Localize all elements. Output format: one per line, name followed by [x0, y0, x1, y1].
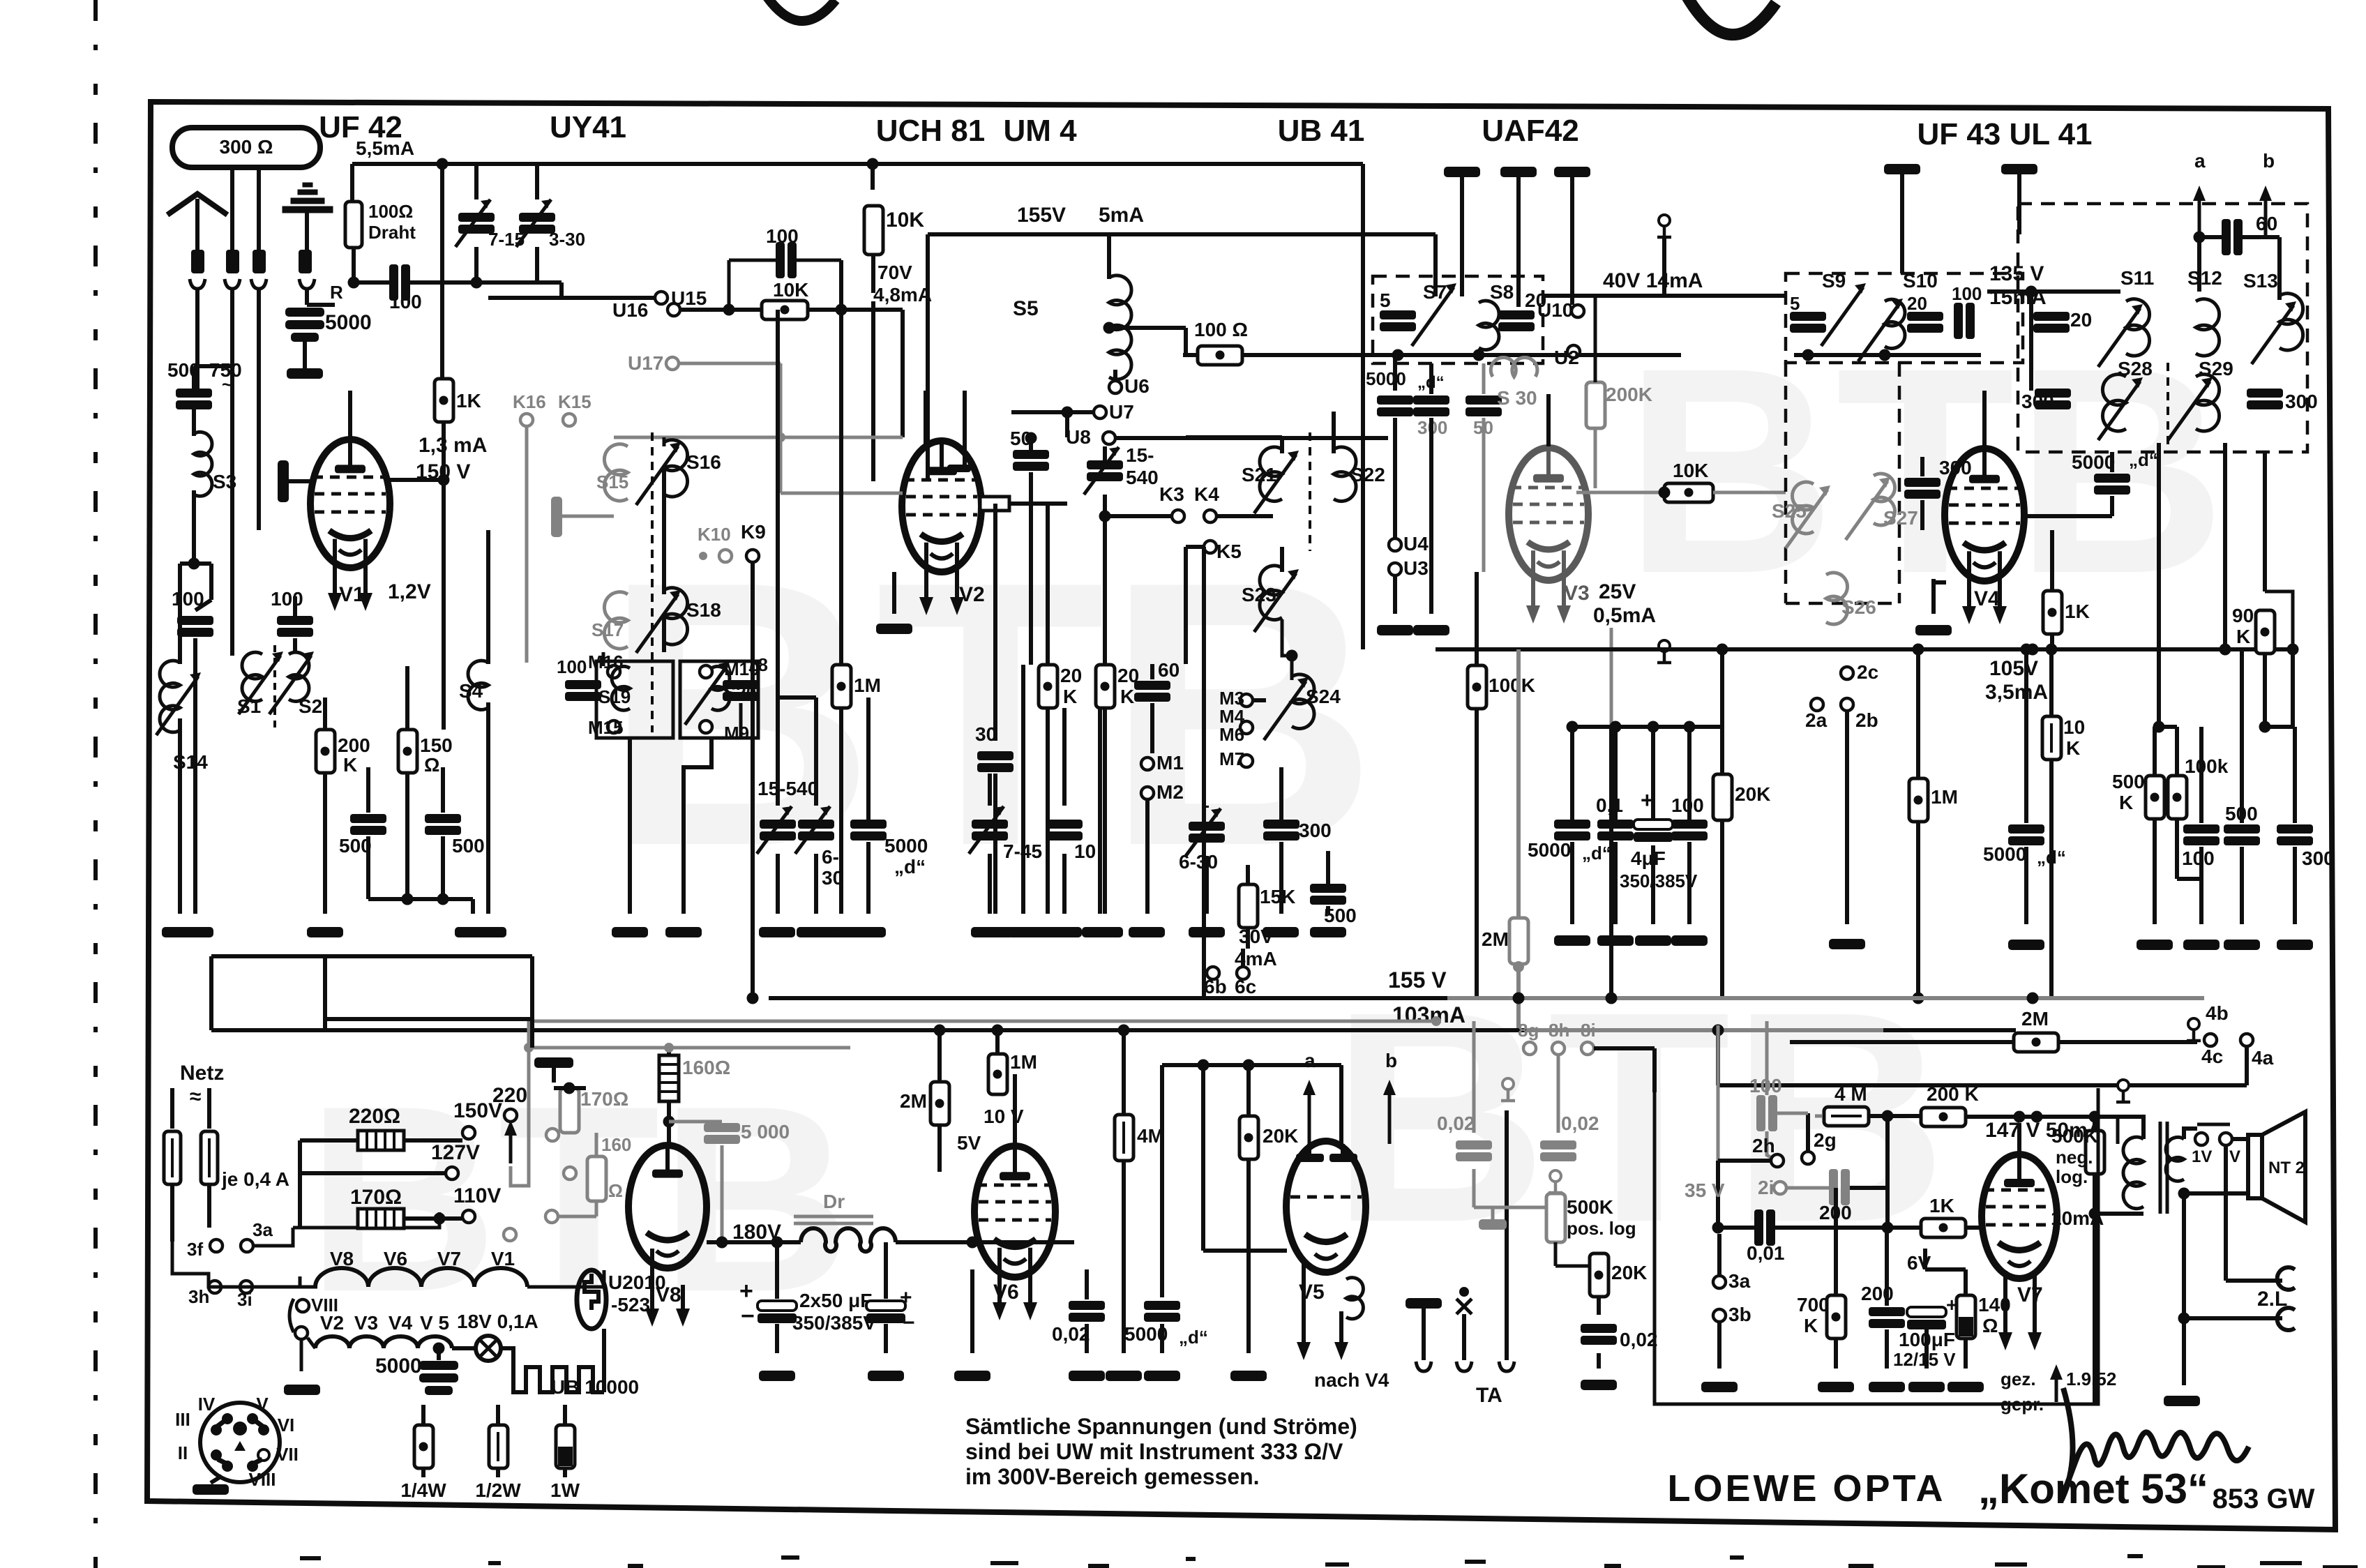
svg-text:UCH 81: UCH 81	[876, 114, 986, 148]
svg-text:V: V	[256, 1394, 269, 1415]
bus 103mA	[211, 1028, 1526, 1032]
electrolytic 4uF	[1634, 820, 1673, 829]
svg-text:8h: 8h	[1549, 1020, 1569, 1041]
fuse 2	[207, 1088, 211, 1129]
wire M1 column	[1145, 799, 1150, 914]
dashed core S21/S22	[1309, 432, 1311, 551]
svg-text:200K: 200K	[1606, 384, 1652, 405]
V5 pins	[1307, 1144, 1311, 1158]
svg-text:20K: 20K	[1263, 1125, 1298, 1147]
svg-text:-523: -523	[611, 1294, 650, 1316]
wire secondary bottom	[2178, 1188, 2190, 1200]
V7 anode to transformer	[2017, 1123, 2021, 1156]
svg-text:U10: U10	[1537, 299, 1573, 321]
coil S30 gray	[1491, 358, 1537, 377]
capacitor 20 if2	[2033, 312, 2070, 333]
wire S2 to 200K	[323, 698, 327, 730]
svg-text:S5: S5	[1013, 297, 1039, 320]
gray cap 200 af	[1829, 1169, 1850, 1205]
trimmer 3-30	[519, 213, 555, 234]
switch box S7 S8 dashed	[1373, 276, 1543, 363]
capacitor 100 M block	[565, 680, 601, 701]
dashed core S15/S16	[651, 432, 654, 732]
svg-text:V8: V8	[330, 1248, 354, 1269]
resistor 1K out	[2050, 530, 2054, 591]
svg-text:VII: VII	[276, 1444, 299, 1465]
svg-text:1K: 1K	[1929, 1195, 1954, 1216]
svg-text:S 30: S 30	[1497, 387, 1537, 409]
svg-text:K5: K5	[1216, 541, 1242, 562]
trimmer 15-540 osc	[1087, 460, 1123, 481]
trimmer 15-540 padder	[760, 820, 796, 840]
svg-text:S21: S21	[1242, 464, 1276, 485]
svg-text:S2: S2	[299, 695, 322, 717]
wire k5 column	[1202, 547, 1206, 998]
svg-text:500: 500	[2112, 771, 2145, 792]
terminal 3b	[1713, 1309, 1726, 1322]
terminal 6c	[1237, 967, 1249, 979]
dashed core S28/S29	[2167, 363, 2169, 453]
gray cap 0,02 b	[1540, 1140, 1576, 1161]
terminal 8i	[1581, 1042, 1594, 1055]
wire heater to ground	[300, 1339, 303, 1371]
coil S3	[192, 409, 196, 436]
resistor 100 ohm ave	[1198, 346, 1242, 365]
terminal antenna a3	[253, 250, 266, 273]
svg-text:S28: S28	[2118, 358, 2153, 379]
earth symbol	[282, 183, 333, 213]
svg-text:20: 20	[1060, 665, 1082, 686]
svg-text:5000: 5000	[2072, 451, 2115, 473]
scan artifact binder arc right	[1687, 0, 1776, 35]
svg-text:2c: 2c	[1857, 661, 1878, 683]
svg-text:4b: 4b	[2206, 1002, 2229, 1024]
svg-text:V3: V3	[354, 1312, 378, 1334]
svg-text:S12: S12	[2187, 267, 2222, 289]
tap point lower bus	[2118, 1080, 2129, 1091]
gray wire K16 down	[525, 426, 529, 610]
svg-text:6c: 6c	[1235, 976, 1256, 997]
svg-text:S19: S19	[598, 686, 631, 707]
wire antenna to S3	[195, 289, 199, 391]
coil S16 black variable	[664, 440, 688, 497]
tap point v3	[1659, 640, 1670, 651]
svg-text:15K: 15K	[1260, 886, 1295, 907]
svg-text:30V: 30V	[1239, 926, 1274, 947]
svg-text:150: 150	[420, 734, 453, 756]
tube V7 UL41	[1982, 1154, 2057, 1279]
svg-text:U2010: U2010	[608, 1272, 666, 1293]
choke Dr	[795, 1240, 801, 1244]
svg-text:1M: 1M	[1931, 786, 1958, 808]
scan artifact left edge	[93, 0, 98, 1568]
svg-text:„d“: „d“	[2037, 847, 2066, 868]
small rectifier U2010-523	[577, 1270, 606, 1329]
wire v6 cathode	[970, 1269, 974, 1353]
terminal K15 gray	[563, 414, 575, 426]
capacitor 100 mid	[1671, 820, 1708, 840]
gray tap a	[1502, 1078, 1514, 1090]
wire 135V	[1987, 289, 2120, 294]
trimmer 6-30	[798, 820, 834, 840]
svg-text:2M: 2M	[1482, 928, 1509, 950]
lamp 18V 0,1A	[452, 1346, 476, 1350]
grid cap V1	[278, 460, 289, 502]
svg-text:III: III	[175, 1409, 190, 1430]
capacitor 5000d uaf42	[1393, 355, 1397, 391]
svg-text:0,01: 0,01	[1747, 1242, 1785, 1264]
gray sel wires	[527, 1021, 531, 1048]
legend resistor 1W	[563, 1405, 567, 1425]
svg-text:≈: ≈	[190, 1085, 201, 1108]
terminal M2	[1141, 787, 1154, 799]
svg-text:S24: S24	[1306, 686, 1341, 707]
terminal TA stem	[1505, 1110, 1509, 1360]
wire box bottom	[1388, 353, 1569, 357]
svg-text:S10: S10	[1903, 270, 1938, 292]
pot 500K neg log	[2086, 1131, 2104, 1174]
tube V6 UB41 af	[974, 1146, 1055, 1277]
capacitor 300 if2 left	[2035, 389, 2071, 409]
svg-text:10K: 10K	[773, 279, 808, 301]
V2 ground	[892, 572, 896, 614]
svg-text:100: 100	[172, 588, 204, 610]
svg-text:V7: V7	[2017, 1283, 2043, 1306]
resistor 100K	[1475, 572, 1479, 665]
capacitor 300 s27	[1904, 478, 1941, 499]
chassis bar uaf42 2	[1500, 167, 1537, 177]
svg-text:10K: 10K	[1673, 460, 1708, 481]
resistor 170 ohm gray	[560, 1088, 579, 1133]
gray cap 100 af	[1756, 1095, 1777, 1131]
svg-text:V3: V3	[1564, 582, 1590, 605]
svg-text:2a: 2a	[1805, 709, 1828, 731]
speaker terminal V	[2220, 1133, 2232, 1145]
svg-text:160Ω: 160Ω	[682, 1057, 730, 1078]
svg-text:300: 300	[1299, 820, 1332, 841]
speaker terminal 1V	[2195, 1133, 2208, 1145]
terminal 2h	[1771, 1154, 1784, 1167]
svg-text:15-540: 15-540	[758, 778, 818, 799]
svg-text:5000: 5000	[1983, 843, 2026, 865]
terminal 3h	[209, 1281, 221, 1293]
capacitor 5000d v6	[1144, 1301, 1180, 1322]
svg-text:K: K	[2066, 737, 2080, 759]
svg-text:S22: S22	[1350, 464, 1385, 485]
barretter UB10000	[501, 1348, 513, 1367]
svg-text:2h: 2h	[1752, 1135, 1775, 1156]
capacitor 60 top	[2222, 219, 2243, 255]
capacitor 300 det	[1263, 820, 1299, 840]
capacitor 50	[1013, 450, 1049, 471]
svg-text:200 K: 200 K	[1927, 1083, 1979, 1105]
capacitor 5 in box	[1380, 310, 1416, 331]
terminal K5	[1204, 541, 1216, 553]
terminal K9	[746, 550, 759, 562]
svg-text:15mA: 15mA	[1989, 286, 2047, 309]
terminal U15	[488, 296, 661, 300]
terminal U2	[1567, 345, 1580, 358]
svg-text:U4: U4	[1403, 533, 1429, 555]
coil S25 gray	[1792, 482, 1814, 534]
svg-text:K: K	[2119, 792, 2133, 813]
resistor 15K	[1239, 884, 1258, 928]
svg-text:K10: K10	[698, 524, 731, 545]
svg-text:1,3 mA: 1,3 mA	[419, 434, 487, 457]
arrow a mid	[1308, 1084, 1311, 1144]
svg-text:M1: M1	[1156, 752, 1184, 774]
chassis bars uf43	[1884, 164, 1920, 174]
svg-text:LOEWE OPTA: LOEWE OPTA	[1668, 1468, 1946, 1509]
wire ps loop	[211, 164, 212, 1030]
svg-text:300 Ω: 300 Ω	[220, 136, 273, 158]
svg-text:U6: U6	[1124, 375, 1150, 397]
svg-text:1/2W: 1/2W	[475, 1479, 521, 1501]
capacitor 0,02 af	[1581, 1324, 1617, 1345]
svg-text:220Ω: 220Ω	[349, 1105, 400, 1128]
resistor 150 ohm	[398, 730, 417, 773]
svg-text:a: a	[2194, 150, 2206, 172]
svg-text:100Ω: 100Ω	[368, 201, 413, 222]
svg-text:S27: S27	[1883, 507, 1918, 529]
svg-text:II: II	[178, 1442, 188, 1463]
capacitor 18	[723, 680, 759, 701]
terminal U7	[1094, 406, 1106, 419]
capacitor 100 antenna	[180, 561, 211, 566]
capacitor 100 agc	[776, 242, 797, 278]
trimmer 7-15	[458, 213, 495, 234]
svg-text:20: 20	[2070, 309, 2092, 331]
svg-text:a: a	[1304, 1050, 1316, 1071]
wire to hook lower	[2178, 1313, 2190, 1325]
capacitor 5000 d	[850, 820, 887, 840]
svg-text:4 M: 4 M	[1834, 1083, 1867, 1105]
svg-text:S11: S11	[2120, 267, 2154, 289]
terminal earth	[299, 250, 312, 273]
svg-text:V 5: V 5	[420, 1312, 449, 1334]
terminal 3f	[210, 1239, 223, 1252]
svg-text:S18: S18	[686, 599, 721, 621]
svg-text:4μF: 4μF	[1631, 847, 1666, 869]
wire 500 caps	[350, 814, 386, 835]
svg-text:K: K	[1063, 686, 1077, 707]
terminal VIII	[296, 1299, 309, 1312]
terminal K16 gray	[520, 414, 533, 426]
svg-text:60: 60	[1158, 659, 1180, 681]
wire antenna down	[350, 164, 354, 202]
coil S29	[2196, 375, 2220, 431]
resistor 220 ohm	[358, 1131, 404, 1150]
svg-text:3b: 3b	[1728, 1304, 1751, 1325]
coil S17 gray	[604, 592, 628, 649]
svg-text:V: V	[2229, 1147, 2240, 1166]
switch S9 arrow	[1821, 287, 1863, 346]
terminal K10 gray	[719, 550, 732, 562]
svg-text:S23: S23	[1242, 584, 1276, 605]
svg-text:2M: 2M	[900, 1090, 927, 1112]
svg-text:3f: 3f	[187, 1239, 203, 1260]
capacitor 200 cath	[1869, 1307, 1905, 1328]
svg-text:5V: 5V	[957, 1132, 981, 1154]
svg-text:127V: 127V	[431, 1141, 480, 1164]
terminal 127V	[446, 1167, 458, 1179]
resistor 90K	[2263, 452, 2267, 591]
svg-text:S15: S15	[596, 472, 628, 492]
svg-text:UM 4: UM 4	[1003, 114, 1077, 148]
resistor 10K agc	[762, 301, 808, 319]
terminal 2g	[1802, 1152, 1814, 1164]
svg-text:1K: 1K	[2065, 601, 2090, 622]
svg-text:UY41: UY41	[550, 110, 626, 144]
svg-text:540: 540	[1126, 467, 1159, 488]
wire V1 anode	[348, 391, 352, 439]
svg-text:S25: S25	[1772, 500, 1807, 522]
svg-text:100: 100	[271, 588, 303, 610]
svg-text:160: 160	[601, 1134, 631, 1155]
terminal X	[1459, 1287, 1469, 1297]
resistor 10K out	[2049, 649, 2054, 716]
wire K3 K4	[1105, 514, 1172, 518]
wire heater top chain	[529, 1270, 604, 1287]
plug forks	[190, 279, 205, 289]
coil S18 black variable	[664, 588, 688, 644]
transformer core	[2160, 1122, 2167, 1214]
resistor 2M agc	[1516, 649, 1521, 919]
svg-text:1.9.52: 1.9.52	[2066, 1369, 2116, 1389]
svg-text:gez.: gez.	[2000, 1369, 2036, 1389]
capacitor 50 gray-label	[1465, 395, 1502, 416]
signature scribble	[2062, 1388, 2249, 1500]
svg-text:10K: 10K	[886, 209, 924, 232]
resistor 20K det out	[1246, 1065, 1251, 1116]
svg-text:5 000: 5 000	[741, 1121, 790, 1143]
resistor 2M coupling	[2014, 1033, 2058, 1052]
svg-text:500: 500	[452, 835, 485, 857]
terminal antenna a2	[226, 250, 239, 273]
wire to tuned circuit	[537, 280, 562, 285]
wire frame-left vertical	[230, 366, 234, 656]
svg-text:7-15: 7-15	[488, 229, 525, 250]
svg-text:5000: 5000	[375, 1355, 422, 1378]
capacitor 500/750	[176, 389, 212, 409]
gray cap 0,02 a	[1456, 1140, 1492, 1161]
svg-text:TA: TA	[1476, 1384, 1502, 1407]
svg-text:1W: 1W	[550, 1479, 580, 1501]
legend resistor 1/4W	[421, 1405, 425, 1425]
coil S26 gray	[1826, 573, 1848, 624]
wire V1 cathode to 150ohm	[405, 666, 409, 730]
resistor 200K gray	[1586, 382, 1605, 428]
svg-text:V4: V4	[1974, 587, 2000, 610]
svg-text:7-45: 7-45	[1003, 840, 1042, 862]
wire V1 screen	[390, 478, 444, 482]
svg-text:K: K	[1120, 686, 1134, 707]
wire 500K bottoms	[2153, 819, 2157, 924]
speaker ground	[2182, 1318, 2186, 1385]
terminal U4	[1389, 538, 1401, 551]
svg-text:K4: K4	[1194, 483, 1219, 505]
svg-text:3-30: 3-30	[549, 229, 585, 250]
resistor 1K	[440, 164, 444, 378]
chassis bar TA	[1406, 1298, 1442, 1309]
resistor 700K	[1834, 1188, 1838, 1295]
wire 8i	[1594, 1046, 1655, 1050]
svg-text:20: 20	[1907, 293, 1927, 314]
svg-text:700: 700	[1797, 1294, 1830, 1316]
svg-text:VIII: VIII	[311, 1295, 338, 1316]
svg-text:6b: 6b	[1204, 976, 1227, 997]
gray grid wire V2	[781, 492, 903, 495]
svg-text:pos. log: pos. log	[1567, 1218, 1636, 1239]
capacitor 0,1	[1597, 820, 1634, 840]
svg-text:2b: 2b	[1855, 709, 1878, 731]
svg-text:S13: S13	[2243, 270, 2278, 292]
svg-text:15-: 15-	[1126, 444, 1154, 466]
capacitor 0,01	[1754, 1209, 1775, 1246]
switch box S9 S10 dashed	[1786, 273, 2023, 363]
svg-text:0,5mA: 0,5mA	[1593, 604, 1656, 627]
svg-text:3a: 3a	[1728, 1270, 1751, 1292]
svg-text:20: 20	[1117, 665, 1139, 686]
capacitor 100 S10	[1954, 303, 1975, 339]
electrolytic 2x50uF a	[775, 1242, 779, 1299]
svg-text:U16: U16	[612, 299, 648, 321]
svg-text:100K: 100K	[1489, 674, 1535, 696]
tube V3 UAF42	[1509, 448, 1588, 580]
svg-text:V2: V2	[959, 583, 985, 606]
electrolytic 2x50uF b	[884, 1242, 888, 1299]
svg-text:b: b	[2263, 150, 2275, 172]
svg-text:220: 220	[492, 1084, 527, 1107]
gray tap b	[1550, 1170, 1561, 1182]
svg-text:S26: S26	[1841, 596, 1876, 618]
svg-text:U17: U17	[628, 352, 663, 374]
terminal 150V	[462, 1126, 475, 1139]
svg-text:sind bei UW mit Instrument 3: sind bei UW mit Instrument 333 Ω/V	[965, 1439, 1343, 1464]
terminal 4a	[2240, 1034, 2253, 1046]
terminal 2i	[1774, 1182, 1786, 1194]
svg-text:500K: 500K	[1567, 1196, 1613, 1218]
terminal 3i	[240, 1281, 253, 1293]
svg-text:35 V: 35 V	[1685, 1179, 1725, 1201]
svg-text:25V: 25V	[1599, 580, 1636, 603]
V4 ground	[1931, 579, 1936, 614]
wire padder link	[778, 695, 816, 700]
svg-text:U7: U7	[1109, 401, 1134, 423]
coil S27 gray	[1874, 474, 1895, 525]
gray bus S15 area	[614, 436, 903, 439]
capacitor 30	[993, 504, 997, 741]
svg-text:2g: 2g	[1814, 1129, 1837, 1151]
heater chain row1	[315, 1268, 527, 1287]
fuse 1	[170, 1088, 174, 1129]
gray ground mini	[1479, 1219, 1507, 1230]
svg-text:6-: 6-	[822, 846, 839, 868]
electrolytic 100uF	[1907, 1307, 1946, 1317]
svg-text:100: 100	[557, 656, 587, 677]
svg-text:1K: 1K	[456, 390, 481, 412]
capacitor 300 right	[2277, 824, 2313, 845]
capacitor 0,02 v6	[1069, 1301, 1105, 1322]
terminal 4b	[2188, 1018, 2199, 1030]
svg-text:UB 41: UB 41	[1278, 114, 1365, 148]
svg-text:8g: 8g	[1518, 1020, 1539, 1041]
svg-text:70V: 70V	[877, 262, 912, 283]
terminal 2c	[1841, 667, 1853, 679]
capacitor 500 det	[1310, 884, 1346, 905]
wire speaker feed	[2232, 1137, 2248, 1141]
chassis bar 170ohm	[534, 1057, 573, 1068]
